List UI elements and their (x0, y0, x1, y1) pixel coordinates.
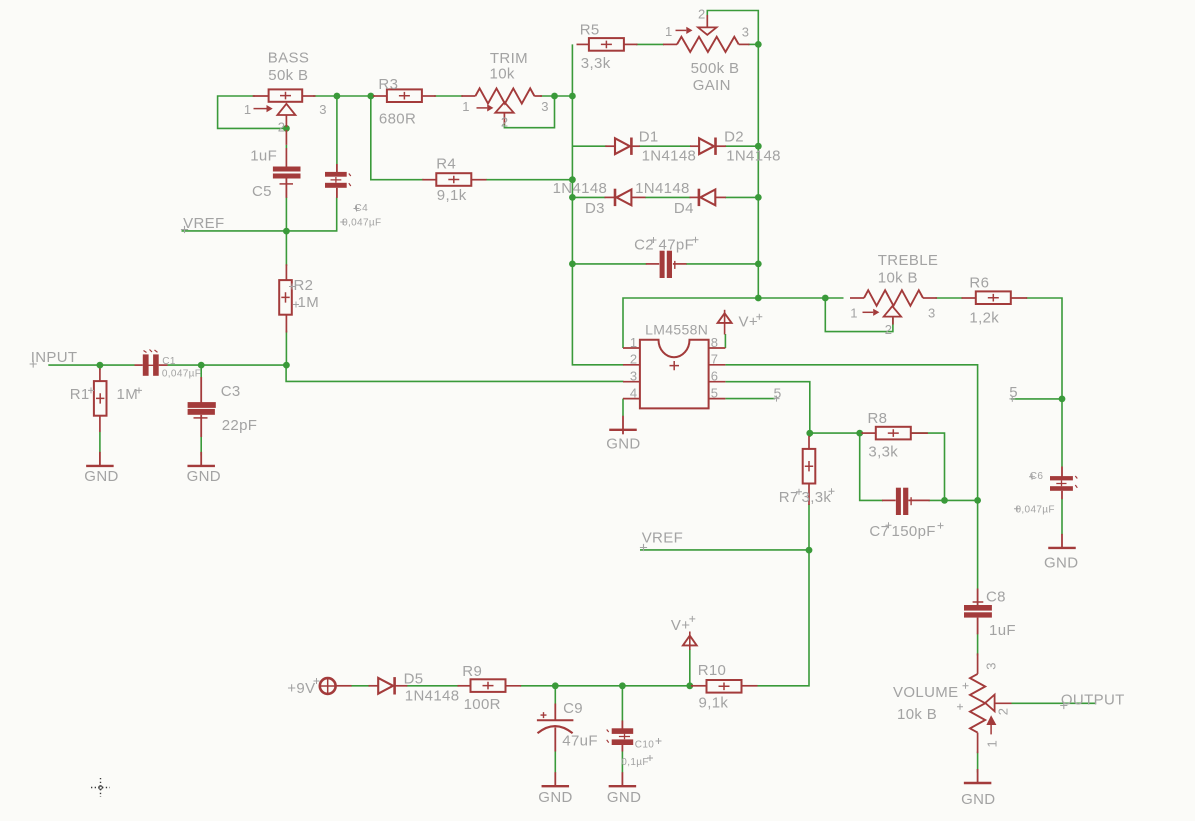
wire to C4 top (336, 96, 338, 164)
ground at C6 (1061, 534, 1063, 548)
svg-text:V+: V+ (739, 313, 758, 330)
svg-text:1M: 1M (117, 386, 139, 403)
wire R7 bottom to VREF (808, 504, 810, 550)
wire R8 left branch to C7 (860, 433, 883, 500)
svg-text:GND: GND (607, 789, 641, 806)
wire R8 right branch down (911, 433, 945, 500)
wire op-amp pin8 to V+ (724, 334, 726, 348)
junction C4 branch (334, 93, 341, 100)
svg-text:1: 1 (244, 102, 252, 117)
svg-text:5: 5 (711, 385, 719, 400)
wire node to op-amp pin3 (286, 365, 623, 381)
capacitor C2 47pF (634, 236, 698, 278)
svg-text:0,1µF: 0,1µF (621, 757, 649, 768)
wire R3 to TRIM (434, 95, 463, 97)
wire branch to R4 (371, 96, 424, 180)
svg-text:3,3k: 3,3k (868, 443, 898, 460)
svg-text:1N4148: 1N4148 (405, 688, 460, 705)
wire VREF node down to R10 (758, 550, 810, 686)
svg-text:C10: C10 (635, 739, 654, 750)
svg-text:C2: C2 (634, 236, 654, 253)
junction TRIM pin2 (551, 93, 558, 100)
wire INPUT to C1 (48, 364, 134, 366)
svg-text:D1: D1 (639, 129, 659, 146)
wire node to R1 (99, 365, 101, 370)
wire C5 bottom to VREF node (285, 197, 287, 231)
svg-text:500k B: 500k B (691, 60, 740, 77)
V+ supply at op-amp pin8 (718, 310, 763, 335)
resistor R5 3,3k (577, 21, 638, 72)
junction R7/R8 (806, 430, 813, 437)
svg-text:2: 2 (885, 322, 893, 337)
diode D2 1N4148 (690, 129, 781, 165)
wire to V+ bottom (689, 649, 691, 686)
svg-text:6: 6 (711, 369, 719, 384)
potentiometer VOLUME 10k B (893, 653, 1012, 753)
wire D4 to column (725, 196, 758, 198)
svg-text:C9: C9 (563, 700, 583, 717)
op-amp U1 LM4558N (623, 321, 725, 408)
wire column to D1 (572, 145, 606, 147)
svg-text:1: 1 (665, 24, 673, 39)
svg-text:3: 3 (984, 662, 999, 670)
wire op-amp pin7 to C8 (725, 365, 977, 589)
wire column to D3 (572, 196, 605, 198)
junction R1 (97, 362, 104, 369)
capacitor C3 22pF (188, 377, 258, 437)
svg-text:R4: R4 (436, 156, 456, 173)
junction D2 right (755, 143, 762, 150)
junction C2 right (755, 261, 762, 268)
wire D3 to D4 (645, 196, 691, 198)
supply +9V terminal (287, 678, 351, 697)
svg-text:D5: D5 (404, 670, 424, 687)
svg-text:2: 2 (698, 7, 706, 22)
svg-text:VREF: VREF (183, 215, 224, 232)
junction VREF/R2/C5 (283, 228, 290, 235)
ground at VOLUME (977, 769, 979, 783)
junction V+/R10 (686, 682, 693, 689)
wire C8 to VOLUME (977, 634, 979, 656)
svg-text:R1: R1 (70, 386, 90, 403)
junction C3 (198, 362, 205, 369)
net label 5 right column (1009, 384, 1018, 402)
ground at C3 (200, 452, 202, 466)
svg-text:50k B: 50k B (268, 67, 308, 84)
junction BASS pin2/C5 (283, 125, 290, 132)
wire VREF label to C4 bottom (182, 198, 337, 231)
sheet origin cross (91, 778, 110, 797)
wire D1 to D2 (639, 145, 691, 147)
svg-text:2: 2 (501, 115, 509, 130)
V+ supply at bottom rail (671, 616, 697, 650)
svg-text:+9V: +9V (287, 680, 315, 697)
svg-text:10k B: 10k B (878, 269, 918, 286)
ground at C10 (621, 772, 623, 786)
wire speck at C5 pin (285, 145, 287, 148)
svg-text:3: 3 (630, 369, 638, 384)
wire to C10 (621, 686, 623, 721)
junction left column top (569, 93, 576, 100)
svg-text:R2: R2 (294, 277, 314, 294)
svg-text:1uF: 1uF (989, 622, 1016, 639)
svg-text:2: 2 (996, 708, 1011, 716)
svg-text:47pF: 47pF (659, 236, 695, 253)
svg-text:8: 8 (711, 335, 719, 350)
wire R4 to left column (486, 179, 572, 181)
wire GAIN pin2 loop (707, 11, 758, 45)
junction C7/pin7 column (974, 497, 981, 504)
svg-text:D3: D3 (585, 200, 605, 217)
svg-text:150pF: 150pF (892, 523, 936, 540)
svg-text:3: 3 (319, 102, 327, 117)
junction TREBLE pin2 loop (822, 295, 829, 302)
ground at op-amp pin4 (622, 416, 624, 430)
svg-text:1M: 1M (298, 294, 320, 311)
ground at R1 (99, 452, 101, 466)
wire BASS pin3 to R3 (313, 95, 375, 97)
capacitor C4 0,047uF (325, 164, 381, 228)
wire op-amp pin1 to TREBLE (623, 298, 844, 348)
net label INPUT (30, 349, 78, 368)
junction VREF/R7/R10 (806, 547, 813, 554)
junction D4 right (755, 194, 762, 201)
capacitor C9 47uF (537, 700, 598, 752)
svg-text:GND: GND (961, 791, 995, 808)
svg-text:C1: C1 (162, 356, 176, 367)
svg-text:7: 7 (711, 352, 719, 367)
svg-text:R9: R9 (462, 663, 482, 680)
svg-text:R10: R10 (698, 662, 727, 679)
wire R9 to R10 (520, 685, 691, 687)
net label VREF left (181, 215, 225, 233)
svg-text:R3: R3 (378, 76, 398, 93)
svg-text:9,1k: 9,1k (699, 695, 729, 712)
svg-text:LM4558N: LM4558N (645, 321, 708, 337)
svg-text:0,047µF: 0,047µF (1016, 504, 1055, 515)
svg-text:C8: C8 (986, 589, 1006, 606)
svg-text:BASS: BASS (268, 49, 309, 66)
svg-text:OUTPUT: OUTPUT (1061, 691, 1125, 708)
wire R6 to C6 column (1026, 298, 1062, 467)
svg-text:3: 3 (541, 99, 549, 114)
svg-text:VREF: VREF (642, 530, 683, 547)
wire left column to op-amp pin2 (572, 44, 623, 364)
junction GAIN pin3 (755, 41, 762, 48)
wire C10 to GND (621, 752, 623, 773)
svg-text:3,3k: 3,3k (581, 55, 611, 72)
diode D3 1N4148 (553, 180, 646, 217)
svg-text:GAIN: GAIN (693, 77, 731, 94)
diode D4 1N4148 (635, 180, 726, 217)
svg-text:V+: V+ (671, 617, 690, 634)
svg-text:TREBLE: TREBLE (878, 252, 938, 269)
svg-text:D4: D4 (674, 200, 694, 217)
wire R2 to input node (285, 331, 287, 366)
wire C2 to column (686, 263, 758, 265)
wire R1 to GND (99, 432, 101, 453)
wire column to C2 (572, 263, 646, 265)
wire VREF node to R2 (285, 231, 287, 266)
wire C7 to pin7 column (929, 499, 978, 501)
svg-text:C3: C3 (221, 383, 241, 400)
svg-text:GND: GND (606, 435, 640, 452)
wire D2 to column (725, 145, 758, 147)
svg-text:100R: 100R (464, 696, 501, 713)
wire GAIN pin3 stub (748, 43, 758, 45)
potentiometer BASS 50k B (244, 49, 327, 166)
svg-text:1: 1 (985, 740, 1000, 748)
svg-text:1: 1 (850, 306, 858, 321)
wire D5 to R9 (407, 685, 459, 687)
net label 5 at pin5 (774, 385, 782, 402)
svg-text:1N4148: 1N4148 (635, 180, 690, 197)
net label VREF lower (640, 530, 683, 552)
capacitor C6 0,047uF (1014, 467, 1077, 516)
svg-text:GND: GND (1044, 554, 1078, 571)
wire VOLUME to GND (977, 752, 979, 773)
svg-text:3,3k: 3,3k (802, 489, 832, 506)
wire right column (757, 44, 759, 298)
svg-text:R6: R6 (969, 274, 989, 291)
junction C10 (619, 682, 626, 689)
potentiometer TRIM 10k (461, 50, 549, 130)
junction D3 row (569, 194, 576, 201)
svg-text:1uF: 1uF (250, 147, 277, 164)
resistor R2 1M (279, 264, 319, 332)
junction R4 branch (367, 93, 374, 100)
svg-text:VOLUME: VOLUME (893, 684, 958, 701)
wire TREBLE pin3 to R6 (936, 297, 963, 299)
svg-text:0,047µF: 0,047µF (342, 217, 381, 228)
diode D1 1N4148 (605, 129, 696, 165)
resistor R8 3,3k (862, 410, 928, 460)
wire C1 to node (168, 364, 287, 366)
capacitor C8 1uF (964, 589, 1016, 639)
junction R2/input (283, 362, 290, 369)
svg-text:680R: 680R (379, 111, 416, 128)
svg-text:GND: GND (187, 468, 221, 485)
wire op-amp pin4 to GND (622, 399, 624, 416)
svg-text:22pF: 22pF (222, 417, 258, 434)
svg-text:2: 2 (630, 352, 638, 367)
svg-text:1N4148: 1N4148 (642, 148, 697, 165)
potentiometer GAIN 500k B (663, 7, 750, 94)
capacitor C1 0,047uF (135, 350, 202, 380)
resistor R1 1M (70, 369, 142, 433)
wire TRIM pin2 loop (504, 96, 554, 128)
ground at C9 (554, 772, 556, 786)
capacitor C5 1uF (250, 147, 300, 200)
svg-text:3: 3 (742, 24, 750, 39)
diode D5 1N4148 (369, 670, 460, 704)
svg-text:0,047µF: 0,047µF (162, 369, 201, 380)
svg-text:1N4148: 1N4148 (553, 180, 608, 197)
svg-text:2: 2 (278, 119, 286, 134)
svg-text:INPUT: INPUT (31, 349, 78, 366)
svg-text:R5: R5 (580, 21, 600, 38)
svg-text:R7: R7 (779, 489, 799, 506)
svg-text:10k: 10k (490, 65, 515, 82)
wire net 5 stub right (1011, 398, 1062, 400)
resistor R3 680R (373, 76, 436, 128)
svg-text:D2: D2 (724, 129, 744, 146)
svg-text:1N4148: 1N4148 (726, 148, 781, 165)
junction R8 left (856, 430, 863, 437)
svg-text:C5: C5 (252, 183, 272, 200)
svg-text:1: 1 (630, 335, 638, 350)
junction right column/pin1 wire (755, 295, 762, 302)
wire R7 node to R8 (810, 432, 863, 434)
svg-text:9,1k: 9,1k (437, 187, 467, 204)
svg-text:GND: GND (538, 789, 572, 806)
junction net5/C6 column (1059, 396, 1066, 403)
wire op-amp pin6 to R7 (725, 382, 809, 437)
wire VREF to node (640, 549, 809, 551)
junction R8/C7 right (941, 497, 948, 504)
capacitor C7 150pF (869, 488, 943, 541)
wire C3 to GND (200, 437, 202, 456)
wire +9V to D5 (351, 685, 370, 687)
resistor R6 1,2k (962, 274, 1028, 326)
svg-text:4: 4 (630, 385, 638, 400)
wire VOLUME wiper to OUTPUT (1012, 702, 1097, 704)
wire node to C3 (200, 365, 202, 377)
junction R4/left column (569, 176, 576, 183)
wire to C9 (554, 686, 556, 704)
resistor R4 9,1k (422, 156, 486, 205)
svg-text:3: 3 (928, 306, 936, 321)
svg-text:1: 1 (462, 99, 470, 114)
svg-text:GND: GND (84, 468, 118, 485)
svg-text:R8: R8 (868, 410, 888, 427)
wire TREBLE pin2 loop (825, 298, 893, 332)
wire C6 to GND (1061, 499, 1063, 535)
wire R5 to GAIN pin1 (636, 43, 664, 45)
net label OUTPUT (1060, 691, 1124, 709)
wire C9 to GND (554, 752, 556, 773)
potentiometer TREBLE 10k B (850, 252, 938, 337)
wire BASS pin1 loop to pin2 (218, 96, 287, 128)
wire net 5 stub at pin5 (725, 398, 775, 400)
resistor R10 9,1k (691, 662, 758, 712)
resistor R7 3,3k (779, 436, 835, 506)
svg-text:1,2k: 1,2k (969, 310, 999, 327)
svg-text:10k B: 10k B (897, 706, 937, 723)
svg-text:47uF: 47uF (562, 733, 598, 750)
wire TRIM pin3 to node (540, 95, 572, 97)
capacitor C10 0,1uF (607, 721, 662, 769)
resistor R9 100R (458, 663, 522, 713)
junction C9 (552, 682, 559, 689)
junction C2 left (569, 261, 576, 268)
